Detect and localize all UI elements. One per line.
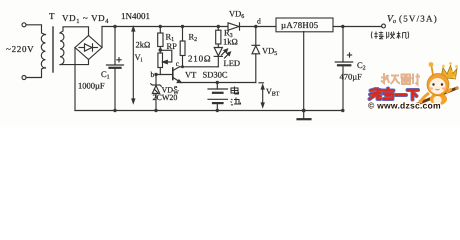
- blush: [429, 87, 433, 90]
- node C2 top: [341, 25, 344, 28]
- battery: [208, 83, 228, 111]
- ground wire from regulator: [303, 32, 305, 111]
- svg-text:R2: R2: [189, 32, 198, 44]
- wire secondary bottom to bridge AC bottom: [60, 60, 89, 65]
- svg-text:VD6: VD6: [229, 9, 244, 21]
- sparkles: [453, 76, 455, 78]
- svg-text:C1: C1: [101, 69, 110, 81]
- eyes: [432, 83, 434, 85]
- 池: [231, 98, 241, 106]
- svg-text:210Ω: 210Ω: [188, 54, 211, 64]
- wire: [26, 25, 45, 35]
- svg-text:VD1 ~ VD4: VD1 ~ VD4: [62, 13, 109, 25]
- node R3 top: [217, 25, 220, 28]
- watermark mascot: [416, 62, 459, 105]
- top rail wire: [102, 26, 228, 28]
- mouth: [436, 88, 440, 91]
- svg-text:Vo: Vo: [387, 15, 397, 26]
- RP wiper tap: [160, 50, 172, 62]
- node zener bottom: [154, 109, 157, 112]
- ground symbol: [303, 111, 305, 119]
- base wire: [156, 74, 172, 76]
- node battery top: [216, 81, 219, 84]
- diode VD5: [252, 27, 260, 83]
- svg-text:SD30C: SD30C: [203, 70, 228, 80]
- node C1 bottom: [113, 109, 116, 112]
- svg-text:2kΩ: 2kΩ: [136, 40, 151, 50]
- bridge rectifier VD1~VD4 diamond: [75, 36, 102, 60]
- head: [427, 74, 449, 96]
- transistor VT: [173, 67, 181, 83]
- svg-text:VD5: VD5: [262, 46, 277, 58]
- svg-text:T: T: [49, 11, 55, 21]
- right arm: [446, 89, 452, 93]
- svg-text:2CW20: 2CW20: [153, 93, 178, 102]
- plus sign of C1: [117, 59, 121, 61]
- 接: [374, 32, 383, 39]
- svg-text:470µF: 470µF: [340, 72, 363, 82]
- svg-text:C2: C2: [357, 60, 366, 72]
- svg-text:RP: RP: [167, 41, 178, 51]
- node battery bottom: [216, 109, 219, 112]
- capacitor C2: [335, 27, 353, 111]
- node ground junction: [302, 109, 306, 113]
- left arm: [421, 93, 429, 101]
- node C1 top: [113, 25, 116, 28]
- AC input terminal top: [22, 23, 26, 27]
- svg-text:d: d: [257, 17, 261, 26]
- resistor R3: [216, 27, 221, 48]
- svg-text:LED: LED: [224, 58, 241, 68]
- 机: [397, 32, 407, 39]
- transformer core: [52, 27, 54, 72]
- plus sign of C2: [347, 54, 351, 56]
- crown: [441, 66, 457, 80]
- wire bridge plus (right vertex) up to top rail: [101, 27, 103, 48]
- svg-text:Vi: Vi: [135, 52, 143, 64]
- svg-text:~220V: ~220V: [6, 44, 34, 54]
- node R1/RP junction: [159, 48, 163, 52]
- node R2/collector junction: [181, 65, 184, 68]
- potentiometer RP: [158, 50, 172, 74]
- 电: [231, 87, 239, 95]
- output terminal Vo: [382, 24, 386, 28]
- emitter wire: [181, 82, 256, 84]
- regulator U1 uA78H05 box: [276, 18, 333, 32]
- diode VD6 on top rail: [228, 23, 276, 30]
- svg-text:(5V/3A): (5V/3A): [399, 14, 438, 24]
- node R1 top: [159, 25, 162, 28]
- svg-text:VBT: VBT: [266, 87, 280, 98]
- svg-text:1kΩ: 1kΩ: [223, 37, 238, 47]
- svg-text:1N4001: 1N4001: [121, 11, 150, 21]
- transformer T primary winding: [41, 35, 45, 69]
- top rail from regulator to output: [333, 26, 382, 28]
- wire bridge minus (left vertex) down to bottom rail: [74, 48, 76, 111]
- resistor R2: [180, 27, 185, 67]
- transformer T secondary winding: [60, 33, 64, 65]
- svg-text:b: b: [151, 70, 155, 79]
- AC input terminal bottom: [22, 76, 26, 80]
- svg-text:© www.dzsc.com: © www.dzsc.com: [368, 101, 441, 111]
- LED emission arrows: [222, 50, 227, 55]
- wire secondary top to bridge AC top: [60, 27, 89, 36]
- svg-text:VT: VT: [185, 70, 197, 80]
- 收: [387, 32, 395, 39]
- body: [430, 93, 447, 105]
- svg-text:µA78H05: µA78H05: [281, 20, 319, 30]
- node b: [154, 73, 157, 76]
- node d: [254, 25, 257, 28]
- bridge inner diode: [79, 47, 85, 49]
- zener diode VDw 2CW20: [151, 75, 162, 111]
- node C2 bottom: [341, 109, 344, 112]
- voltage arrow Vi: [132, 27, 135, 103]
- watermark red text 维库一下: [370, 89, 419, 100]
- bottom rail wire: [75, 110, 343, 112]
- wire: [26, 68, 45, 78]
- node R2 top: [181, 25, 184, 28]
- label 接收机 (receiver): [371, 32, 408, 39]
- label 电池 (battery): [231, 87, 241, 106]
- svg-text:1000µF: 1000µF: [78, 81, 105, 91]
- LED: [214, 48, 230, 67]
- watermark faded text 找元器件: [381, 73, 420, 85]
- prongs: [432, 66, 434, 75]
- voltage arrow VBT: [261, 85, 264, 107]
- collector wire: [180, 66, 219, 68]
- resistor R1: [158, 27, 163, 54]
- stick: [416, 88, 457, 105]
- capacitor C1: [107, 27, 124, 111]
